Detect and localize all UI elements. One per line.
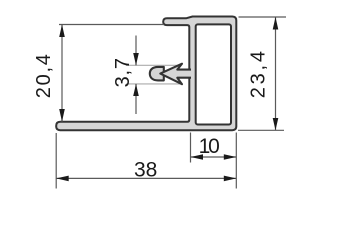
dim 10 / 38 shared extension line right <box>235 133 237 189</box>
3,7 thin reference line upper <box>126 64 181 66</box>
svg-text:3,7: 3,7 <box>112 57 134 87</box>
dim 3,7 arrow down <box>133 53 139 65</box>
dim 38 arrow right <box>224 176 237 182</box>
dim 38 extension line left <box>55 133 57 189</box>
svg-text:23,4: 23,4 <box>248 48 270 98</box>
dim 20,4 line <box>61 25 63 122</box>
clip bullet (rounded nose) <box>150 67 164 81</box>
dim 23,4 arrow down <box>273 118 279 130</box>
profile outer body (plate + box + top flange) <box>56 17 236 131</box>
dim 23,4 line <box>275 17 277 130</box>
dim 23,4 arrow up <box>273 17 279 30</box>
svg-text:38: 38 <box>134 158 157 181</box>
svg-text:20,4: 20,4 <box>33 52 55 98</box>
dim 10 arrow right <box>224 154 237 160</box>
dim 20,4 arrow up <box>59 25 65 38</box>
box interior hollow <box>196 24 231 124</box>
dim 3,7 arrow up <box>133 84 139 96</box>
dim 38 arrow left <box>56 176 68 182</box>
clip arrow body fill (chevron + shaft into box wall) <box>160 64 194 84</box>
dim 10 line <box>191 156 237 158</box>
svg-text:10: 10 <box>199 135 219 158</box>
dim 3,7 line upper <box>135 36 137 66</box>
dim 38 line <box>56 177 236 179</box>
dim 10 extension line left <box>190 133 192 163</box>
dim 20,4 arrow down <box>59 109 65 122</box>
clip arrow outline <box>160 64 191 84</box>
dim 10 arrow left <box>191 154 204 160</box>
dim 20,4 extension line top <box>59 24 164 26</box>
dim 3,7 line lower <box>135 84 137 114</box>
dim 23,4 extension line bottom <box>238 129 284 131</box>
dim 23,4 extension line top <box>239 16 287 18</box>
3,7 thin reference line lower <box>126 83 181 85</box>
